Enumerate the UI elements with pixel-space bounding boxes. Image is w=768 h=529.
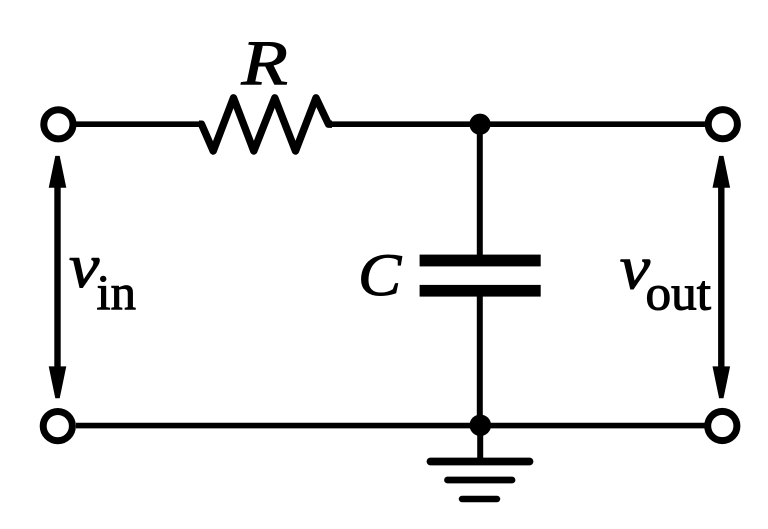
label vin bbox=[69, 233, 136, 320]
ground bar 1 bbox=[431, 458, 530, 466]
svg-text:v: v bbox=[69, 233, 100, 301]
svg-text:R: R bbox=[240, 28, 287, 99]
vin measurement arrow (double-headed) bbox=[49, 156, 67, 398]
wire top rail left segment (input terminal to resistor) bbox=[76, 121, 203, 127]
ground bar 3 bbox=[462, 496, 497, 503]
ground lead bbox=[477, 425, 483, 459]
wire top rail right segment (resistor to output terminal) bbox=[328, 121, 705, 127]
terminal top-right (output +) bbox=[708, 110, 737, 139]
terminal bottom-right (output -) bbox=[708, 411, 737, 440]
svg-text:C: C bbox=[358, 242, 402, 308]
capacitor C bottom plate bbox=[420, 285, 541, 297]
terminal top-left (input +) bbox=[44, 110, 73, 139]
node junction bottom (dot) bbox=[470, 415, 492, 437]
ground bar 2 bbox=[448, 477, 513, 484]
label vout bbox=[620, 234, 711, 320]
node junction top (dot) bbox=[469, 114, 490, 135]
vout measurement arrow (double-headed) bbox=[713, 156, 731, 398]
wire capacitor top lead bbox=[477, 124, 483, 255]
svg-text:in: in bbox=[97, 264, 137, 320]
capacitor C top plate bbox=[420, 255, 541, 267]
resistor R bbox=[199, 98, 332, 151]
terminal bottom-left (input -) bbox=[43, 412, 72, 441]
wire bottom rail bbox=[76, 423, 705, 429]
svg-text:out: out bbox=[646, 265, 712, 321]
wire capacitor bottom lead bbox=[477, 296, 483, 426]
